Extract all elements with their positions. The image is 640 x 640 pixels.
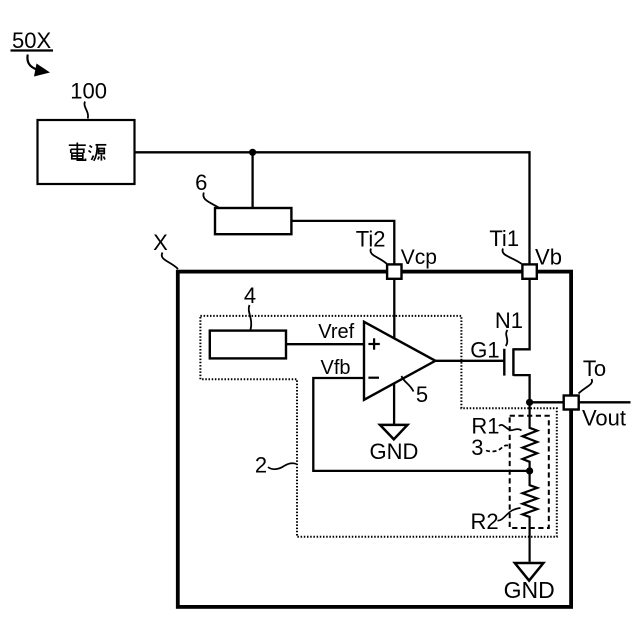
junction above block 6 (249, 149, 256, 156)
svg-text:Vfb: Vfb (320, 357, 350, 379)
svg-text:2: 2 (255, 452, 267, 477)
svg-text:Ti1: Ti1 (489, 226, 519, 251)
terminal Ti2 (387, 264, 401, 278)
junction: output node (526, 399, 533, 406)
label 5 (402, 376, 429, 407)
dashed region 2 outline (200, 316, 556, 537)
wire: block 4 to op-amp plus input (Vref) (286, 343, 364, 345)
wire: terminal Ti2 to op-amp supply (393, 272, 395, 338)
label Ti1 (489, 226, 521, 264)
svg-text:6: 6 (195, 170, 207, 195)
wire: junction down to block 6 (251, 152, 253, 208)
svg-text:N1: N1 (495, 308, 523, 333)
svg-text:100: 100 (70, 79, 107, 104)
terminal To (564, 396, 579, 410)
wire: feedback to op-amp minus input (Vfb) (313, 378, 529, 471)
svg-text:3: 3 (471, 435, 483, 460)
svg-text:R2: R2 (470, 509, 498, 534)
label R1 (471, 413, 521, 438)
dashed divider box 3 (510, 416, 549, 528)
svg-text:Ti2: Ti2 (356, 226, 386, 251)
junction: feedback node (526, 467, 533, 474)
label 6 (195, 170, 221, 210)
label Ti2 (356, 226, 387, 263)
terminal Ti1 (522, 264, 536, 278)
label R2 (470, 508, 520, 534)
svg-text:5: 5 (416, 382, 428, 407)
kanji GEN (source) (89, 145, 107, 161)
svg-text:Vb: Vb (535, 244, 562, 269)
wire: output node through To to Vout (530, 401, 631, 403)
ground under op-amp (380, 425, 408, 439)
regulator block X boundary (178, 272, 571, 607)
svg-text:50X: 50X (12, 28, 51, 53)
label X (153, 230, 178, 269)
svg-text:Vref: Vref (318, 321, 354, 343)
label 2 (255, 452, 297, 477)
arrow from 50X (27, 55, 50, 77)
svg-text:X: X (153, 230, 168, 255)
svg-text:GND: GND (504, 577, 555, 603)
transistor N1 (504, 278, 529, 402)
kanji DEN (electric) (69, 143, 86, 161)
label To (579, 356, 607, 394)
svg-text:4: 4 (244, 283, 256, 308)
wire: block 6 to terminal Ti2 (291, 221, 394, 272)
ground below R2 (515, 563, 544, 581)
wire: op-amp output to gate G1 (435, 360, 504, 362)
wire: op-amp to ground (393, 384, 395, 425)
resistor R2 (523, 471, 538, 562)
block 6 (215, 208, 291, 234)
svg-text:Vcp: Vcp (401, 246, 437, 269)
label N1 (495, 308, 523, 346)
label 3 (471, 435, 509, 460)
svg-text:G1: G1 (470, 337, 499, 362)
svg-text:Vout: Vout (582, 405, 626, 430)
svg-text:GND: GND (370, 439, 419, 464)
svg-text:To: To (583, 356, 606, 381)
label 4 (244, 283, 256, 330)
label 50X (11, 28, 54, 53)
resistor R1 (523, 402, 538, 471)
label 100 (70, 79, 107, 119)
reference block 4 (210, 331, 286, 359)
wire: power supply output to Ti1 drop (135, 152, 530, 272)
op-amp 5 (364, 322, 435, 400)
power supply box 100 (dengen) (38, 120, 135, 184)
